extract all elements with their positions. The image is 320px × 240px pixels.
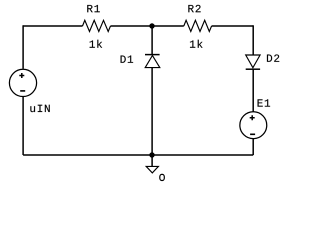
reference label E1 [258,99,271,106]
reference label D1 [121,56,134,63]
node label 0 (ground net) [160,174,165,180]
resistor R1 [83,20,111,31]
junction dot top (R1/R2/D1 node) [149,23,154,28]
voltage source uIN (circle with plus and minus) [9,69,36,96]
wire middle vertical upper (junction to D1 cathode) [151,26,153,55]
reference label uIN [30,105,49,112]
resistor R2 [184,20,212,31]
value label 1k (R2) [190,40,203,48]
ground symbol [146,155,158,173]
wire D2 cathode to E1 top [252,69,254,111]
wire left vertical lower (uIN bottom to bottom wire) [22,97,24,155]
wire top-left horizontal (input node to R1) [23,25,82,27]
wire middle vertical lower (D1 anode to bottom junction) [151,68,153,155]
diode D1 (cathode bar on top, triangle pointing up) [145,55,160,68]
wire middle junction to R2 [152,25,184,27]
voltage source E1 (circle with plus and minus) [240,112,267,139]
wire right vertical upper (corner to D2 anode) [252,25,254,55]
reference label D2 [267,54,279,61]
wire left vertical upper (corner to uIN top) [22,25,24,69]
reference label R1 [87,5,100,12]
reference label R2 [188,5,200,12]
wire R1 to middle junction [111,25,153,27]
wire E1 bottom to bottom-right corner [252,139,254,155]
wire bottom horizontal [23,154,253,156]
diode D2 (triangle pointing down, cathode bar on bottom) [246,55,260,69]
value label 1k (R1) [90,40,103,48]
junction dot bottom (ground node) [149,152,154,157]
wire R2 to top-right corner [212,25,254,27]
